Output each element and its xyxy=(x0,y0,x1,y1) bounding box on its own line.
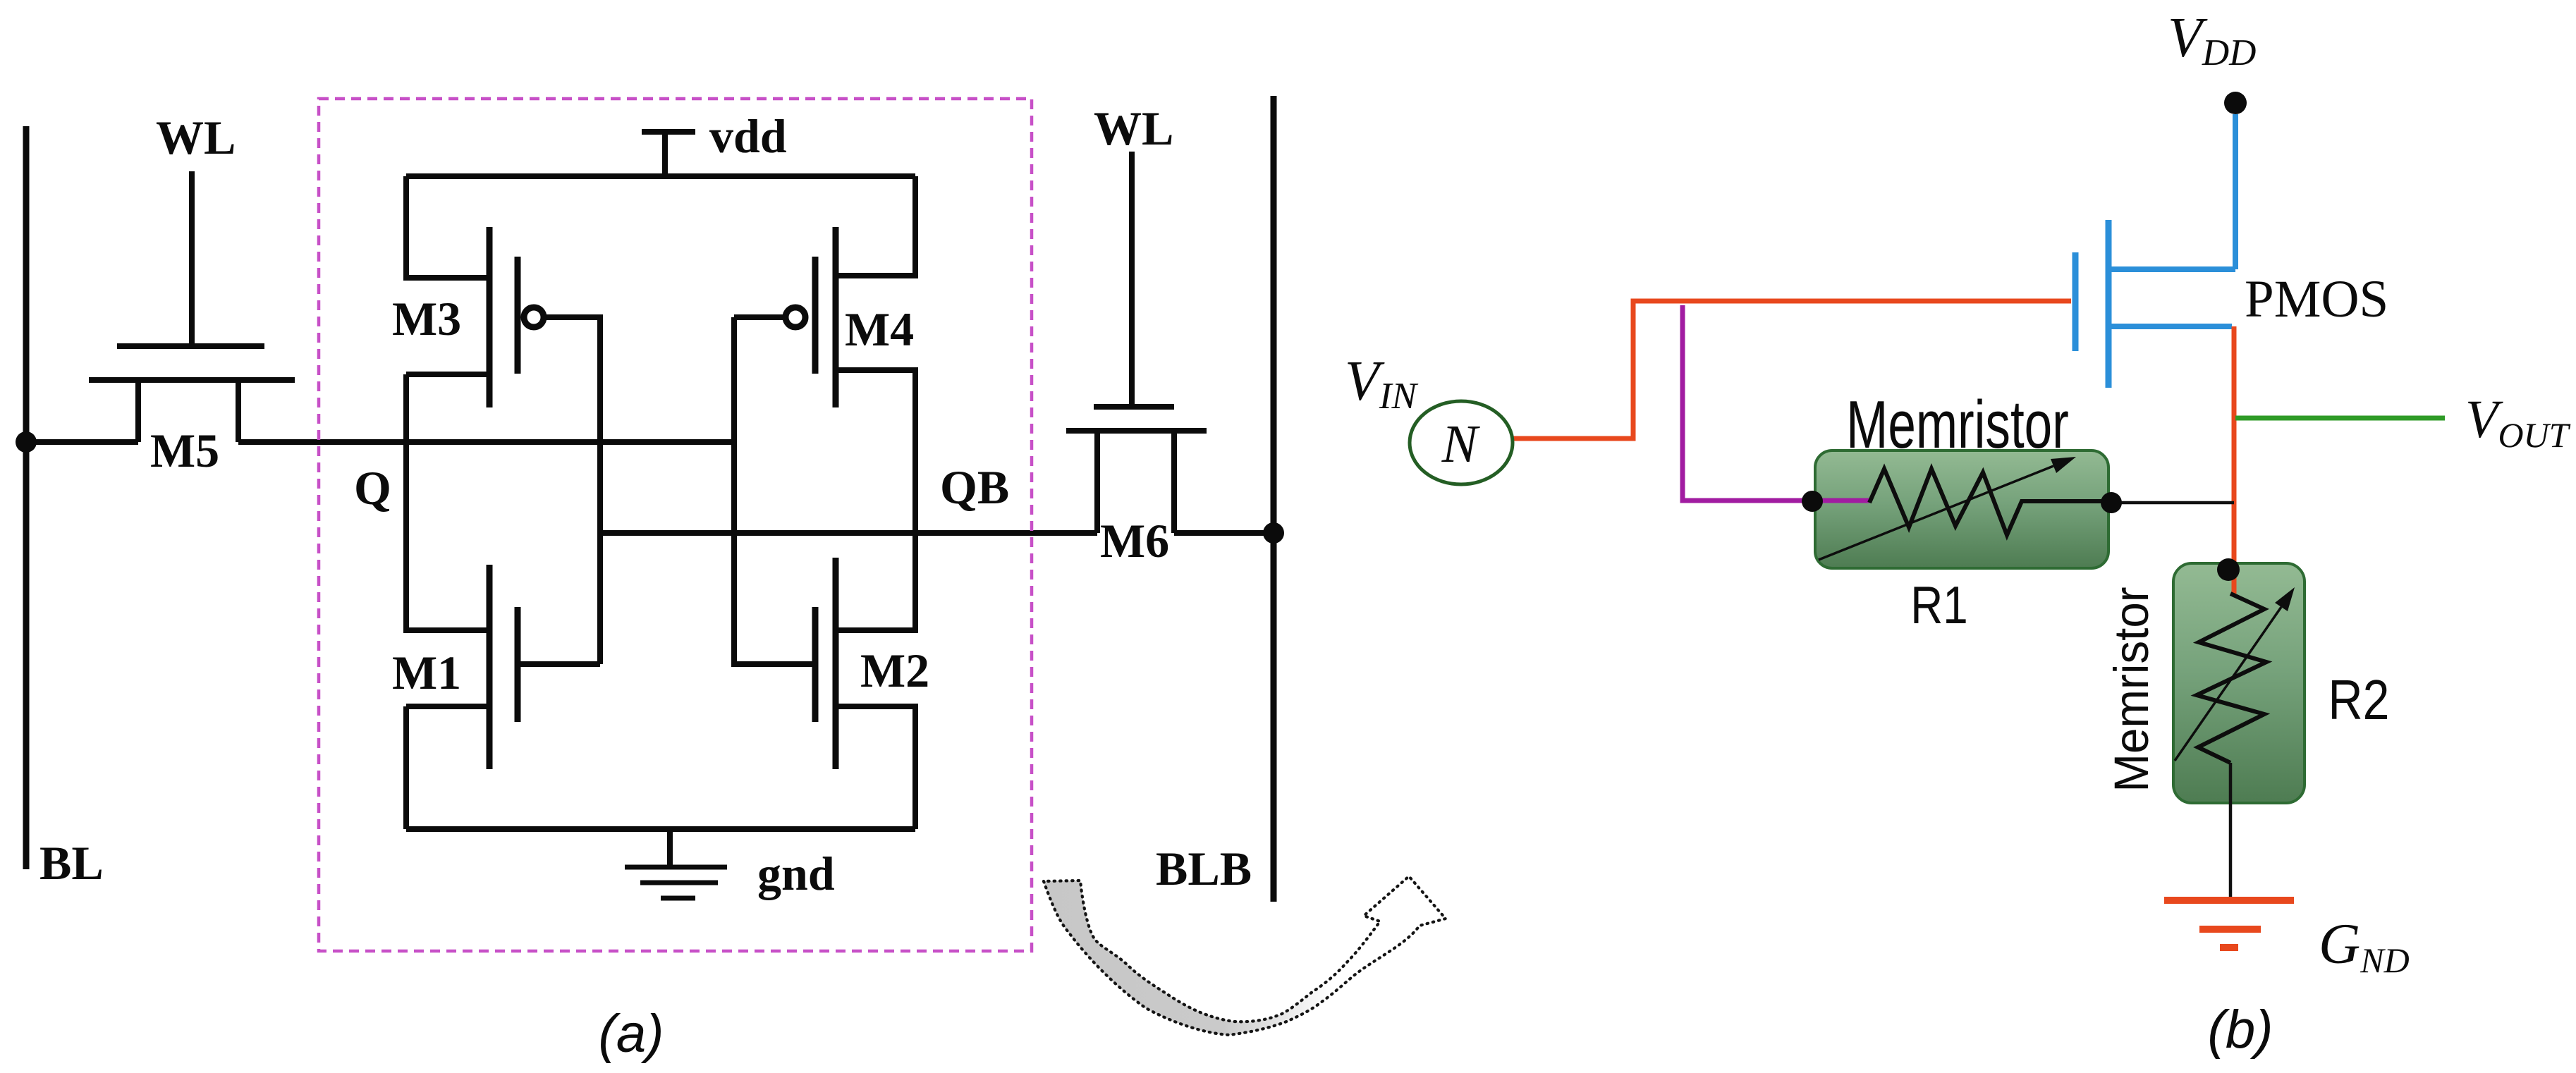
svg-text:M1: M1 xyxy=(392,646,461,699)
svg-text:WL: WL xyxy=(156,111,236,164)
svg-text:R1: R1 xyxy=(1910,575,1967,634)
svg-text:BLB: BLB xyxy=(1156,842,1252,895)
svg-text:Memristor: Memristor xyxy=(1846,387,2069,462)
svg-text:M6: M6 xyxy=(1100,514,1169,568)
svg-text:(b): (b) xyxy=(2208,1000,2273,1060)
svg-text:M4: M4 xyxy=(845,302,914,356)
svg-text:M5: M5 xyxy=(150,424,219,477)
svg-text:QB: QB xyxy=(940,460,1009,514)
svg-text:M3: M3 xyxy=(392,292,461,345)
svg-text:N: N xyxy=(1441,415,1481,474)
svg-text:PMOS: PMOS xyxy=(2245,270,2388,329)
svg-text:(a): (a) xyxy=(599,1004,664,1064)
svg-text:WL: WL xyxy=(1094,102,1173,155)
svg-text:Q: Q xyxy=(354,461,391,515)
svg-text:gnd: gnd xyxy=(757,847,835,900)
svg-text:vdd: vdd xyxy=(709,109,787,163)
svg-text:BL: BL xyxy=(39,836,104,890)
svg-text:M2: M2 xyxy=(860,644,929,697)
svg-text:R2: R2 xyxy=(2328,668,2390,731)
svg-text:Memristor: Memristor xyxy=(2104,587,2159,792)
